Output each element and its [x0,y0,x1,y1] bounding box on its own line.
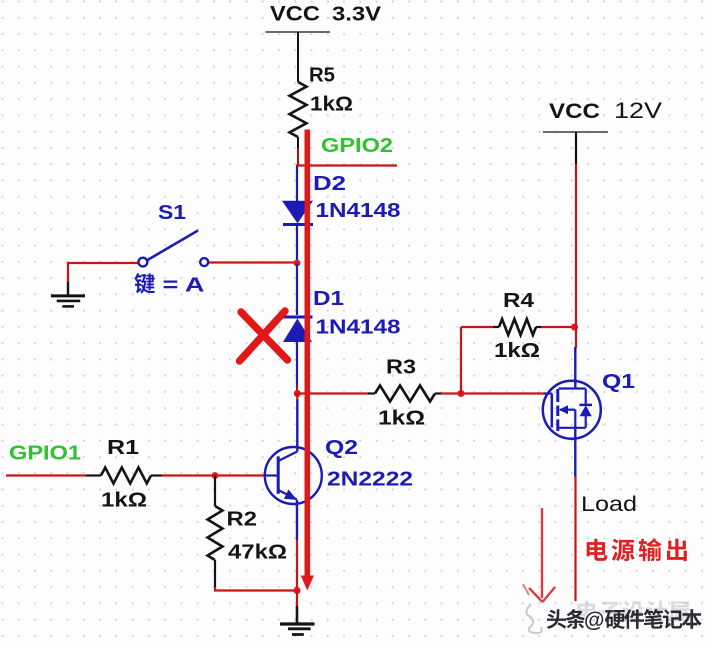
junction node (D1 / R3 / Q2 collector) [294,390,301,397]
watermark scribble [526,604,541,633]
svg-text:GPIO1: GPIO1 [9,443,81,465]
svg-text:S1: S1 [158,202,186,224]
label 电源输出 [587,538,687,561]
wire Q1 source to Load [574,476,576,601]
wire node to R3 [297,392,369,394]
wire VCC12 lead [575,132,577,165]
svg-text:1kΩ: 1kΩ [378,408,425,430]
wire Q2 emitter to ground node [296,540,298,591]
svg-text:D1: D1 [313,288,344,310]
wire node to ground [296,591,298,608]
svg-text:Q2: Q2 [325,437,358,459]
annotation: thin red output arrow [523,508,555,602]
svg-text:D2: D2 [313,173,346,195]
label Load [581,493,637,516]
power symbol VCC 3.3V [266,3,382,33]
svg-text:1kΩ: 1kΩ [310,94,353,116]
wire switch net (S1 to diode junction) [208,261,298,263]
watermark 头条@硬件笔记本 [547,609,702,632]
svg-text:1N4148: 1N4148 [316,199,401,222]
label 键 = A [134,273,204,296]
svg-text:12V: 12V [614,98,662,123]
svg-text:R5: R5 [309,65,335,87]
switch S1 [139,202,209,267]
wire GPIO1 to R1 [6,474,87,476]
wire gate node up to R4 [460,327,462,394]
svg-text:VCC: VCC [549,100,600,123]
svg-text:2N2222: 2N2222 [327,468,413,491]
resistor R4 1kΩ [461,290,576,362]
svg-text:1kΩ: 1kΩ [494,340,540,362]
net label GPIO1 [9,443,81,465]
wire ground to S1 [68,263,139,282]
svg-text:Load: Load [581,493,637,516]
svg-text:3.3V: 3.3V [332,3,381,26]
junction diode/switch node [294,260,301,267]
junction R3/R4 node [458,390,465,397]
svg-text:GPIO2: GPIO2 [321,135,393,157]
wire R3 to Q1 gate [441,392,544,394]
junction R4 / 12V rail [571,324,578,331]
resistor R3 1kΩ [368,357,441,430]
diode D1 1N4148 (crossed out) [283,264,401,387]
wire Q2 collector to node [296,394,298,401]
diode D2 1N4148 [282,166,401,262]
svg-text:= A: = A [163,275,205,297]
wire R2 bottom to emitter node [215,587,297,591]
resistor R2 47kΩ [208,476,288,589]
ground (left, switch) [51,281,85,306]
annotation: thick red current-path arrow [301,130,314,591]
node GPIO2 / net label [296,135,397,166]
svg-text:1kΩ: 1kΩ [101,490,147,512]
wire R5 to GPIO2 node [297,148,299,166]
power symbol VCC 12V [543,98,662,132]
svg-text:R3: R3 [386,357,416,379]
wire R1 to Q2 base [162,474,265,476]
red X mark over D1 [240,311,288,361]
wire VCC3.3 to R5 [297,32,299,82]
svg-text:@: @ [584,609,604,632]
wire 12V rail [575,164,577,348]
junction emitter/R2/ground [293,587,300,594]
wire D1 to node [296,385,298,394]
svg-text:1N4148: 1N4148 [316,316,401,339]
svg-text:47kΩ: 47kΩ [228,542,287,564]
resistor R1 1kΩ [86,437,162,512]
ground (bottom) [280,606,315,635]
svg-text:R2: R2 [227,509,258,531]
resistor R5 1kΩ [290,65,354,150]
watermark ghost 电子设计屋 [578,601,690,623]
transistor Q1 (NMOS) [543,347,635,477]
transistor Q2 (NPN 2N2222) [265,399,414,540]
junction R1/R2/base [212,472,219,479]
svg-text:R4: R4 [503,290,535,312]
svg-text:VCC: VCC [270,3,320,26]
svg-text:R1: R1 [107,437,139,459]
svg-text:Q1: Q1 [602,371,635,393]
